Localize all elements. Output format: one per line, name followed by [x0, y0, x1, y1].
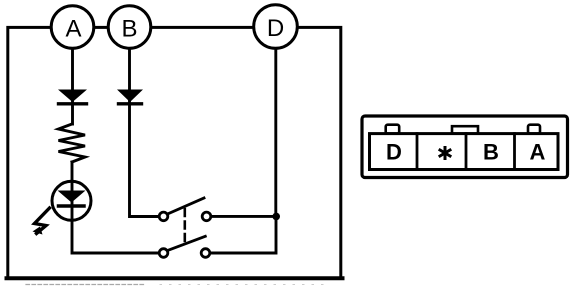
- scan speckle under bottom edge: [26, 284, 145, 286]
- switch S1 upper: right contact: [202, 212, 211, 221]
- diode D2 (B branch): [117, 90, 143, 104]
- terminal A: [51, 6, 94, 49]
- node: junction dot at D branch: [272, 213, 280, 221]
- wire: branch from terminal B down through diode to upper switch contact: [130, 48, 159, 217]
- connector J1 outer housing: [362, 116, 568, 178]
- terminal D: [254, 5, 298, 49]
- wire: branch from terminal A down to diode and resistor: [71, 48, 74, 124]
- ganged switch linkage (dashed): [184, 209, 187, 246]
- svg-text:A: A: [65, 15, 81, 42]
- LED (circle drawn before interior line/diode): [52, 181, 91, 221]
- connector J1 cell divider 2: [465, 134, 468, 170]
- resistor R1: [59, 124, 86, 162]
- svg-text:B: B: [121, 15, 137, 42]
- terminal B: [108, 6, 151, 49]
- switch S2 lower: left contact: [159, 249, 168, 258]
- switch S1 upper: left contact: [159, 212, 168, 221]
- switch S2 lower: right contact: [201, 249, 210, 258]
- connector J1 index tab above pin D: [386, 125, 400, 134]
- connector J1 center latch tab: [452, 126, 478, 133]
- connector J1 cell divider 1: [416, 134, 419, 170]
- connector J1 index tab above pin A: [528, 125, 540, 134]
- svg-text:A: A: [530, 140, 546, 165]
- wire: resistor to LED, through LED, down and right to lower switch contact: [72, 162, 158, 253]
- svg-text:D: D: [267, 15, 284, 42]
- svg-text:B: B: [483, 140, 499, 165]
- wire: branch from terminal D down to junction: [274, 48, 277, 216]
- connector J1 cell divider 3: [513, 134, 516, 170]
- switch S2 lower: lever: [168, 236, 205, 250]
- LED light-emission lightning arrow: [33, 208, 50, 235]
- connector J1 pin row body: [370, 134, 559, 170]
- diode D1 (A branch): [58, 90, 87, 104]
- svg-text:D: D: [386, 140, 402, 165]
- wire: outer loop rectangle of circuit: [8, 27, 341, 278]
- wire: upper switch output to junction: [212, 215, 274, 218]
- pin label * (asterisk): [440, 148, 450, 159]
- switch S1 upper: lever: [168, 198, 204, 214]
- wire: lower switch output right and up to junction: [211, 216, 276, 253]
- wire: bottom edge (thicker): [7, 276, 343, 280]
